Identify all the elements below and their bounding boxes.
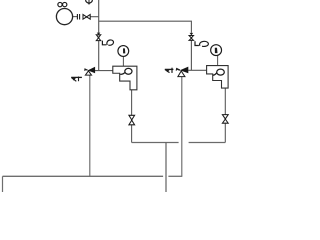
label 6 (right, rotated) [217,69,225,75]
wire: pump discharge line [73,16,78,18]
wire: riser right below valve 5 [190,40,192,70]
wire: block 6 left drain upper [131,90,133,115]
label 5 (left, rotated) [102,41,106,45]
wire: drop from drain header [165,143,167,193]
block 6 right (stepped equipment) [207,66,229,89]
valve V1 (gate valve on pump line) [83,15,90,20]
label 5 (right, rotated) [195,41,199,45]
wire: discharge left vertical [89,75,91,176]
label 6 (left, rotated) [125,68,132,74]
drain valve right (vertical) [222,115,228,124]
wire: bottom header right segment [168,175,182,177]
wire: bottom header left segment [3,175,164,177]
angle valve 4 right: filled triangle [180,67,188,74]
motor circle right with M [211,45,222,56]
label 8 (rotated) above pump [58,2,62,6]
wire: bottom left drop [2,176,4,192]
flange pair on pump line [77,14,79,20]
wire: block 6 right drain lower [224,123,226,142]
wire: discharge right vertical [181,77,183,177]
wire: block 6 left drain lower [131,125,133,143]
wire: right junction row [188,69,206,71]
flow arrow on right riser [190,33,194,36]
top symbol: circle with down arrow (cut at top edge) [86,0,93,3]
valve 5 right (vertical globe valve) [189,36,193,41]
label 4 (left, rotated) [71,76,82,78]
wire: drain header left segment [132,142,179,144]
block 6 left (stepped equipment) [113,66,137,90]
wire: riser left below valve 5 [98,41,100,71]
drain valve left (vertical) [129,115,135,125]
wire: left junction row [95,70,113,72]
wire: drain header right segment [189,142,226,144]
angle valve 4 right: stem and tick [177,69,180,70]
wire: pump line valve to riser [90,16,99,18]
wire: block 6 right drain upper [224,88,226,114]
flow arrow on left riser [97,33,101,36]
wire: motor stem left [122,56,124,66]
pump P (circle) [56,9,72,25]
valve 5 left (vertical globe valve) [96,35,100,41]
angle valve 4 left: stem and T-bar [85,69,88,70]
angle valve 4 right: open triangle [178,71,185,77]
angle valve 4 left: filled triangle [88,67,95,74]
angle valve 4 left: open triangle [85,71,91,75]
motor circle left with M [118,46,129,57]
wire: main riser left [98,0,100,33]
wire: top header to right branch [99,21,192,33]
wire: motor stem right [217,56,219,66]
label 4 (right, rotated) [165,68,174,70]
